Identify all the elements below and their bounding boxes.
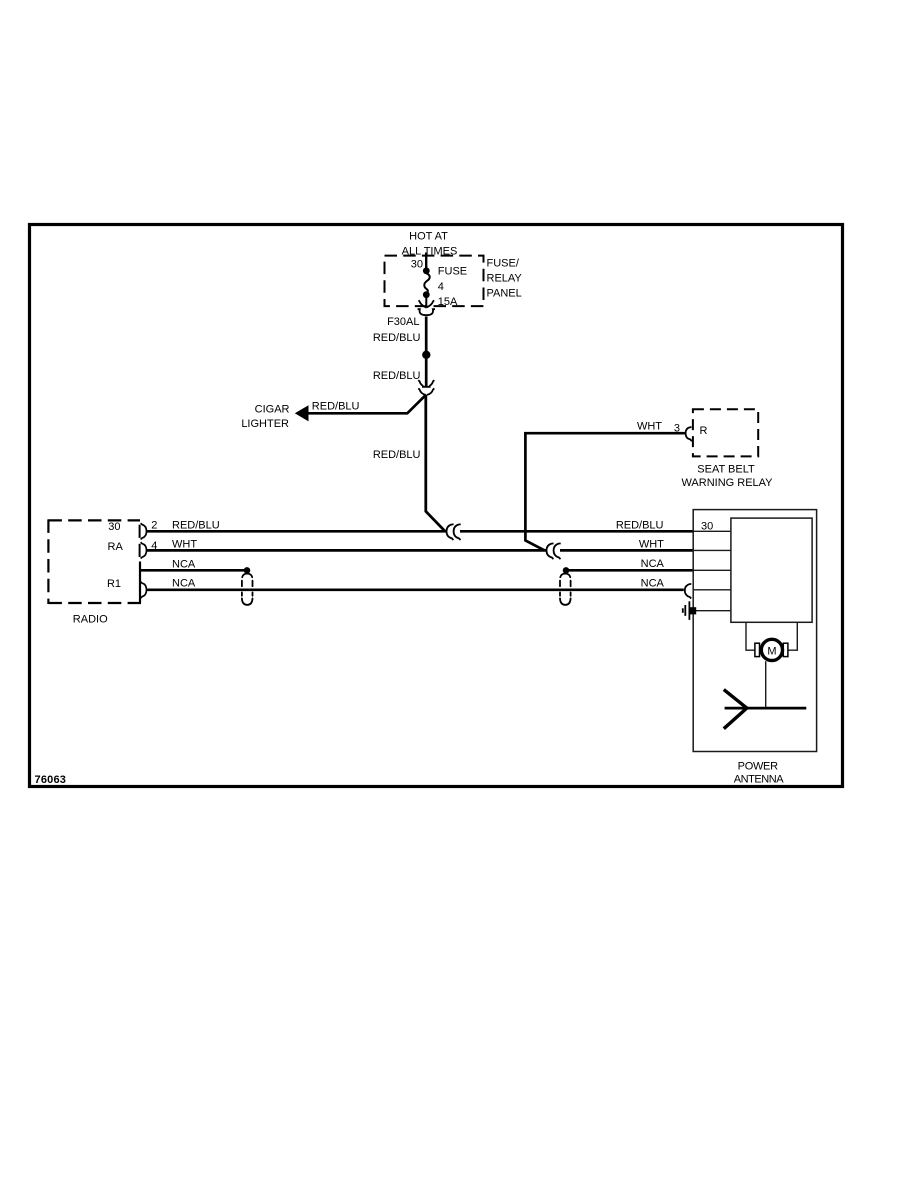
svg-text:RED/BLU: RED/BLU [172, 520, 220, 532]
inline connector on WHT [547, 544, 554, 560]
svg-text:NCA: NCA [641, 558, 665, 570]
power antenna box [693, 510, 816, 752]
svg-text:R1: R1 [107, 578, 121, 590]
svg-text:PANEL: PANEL [487, 287, 522, 299]
svg-text:30: 30 [108, 521, 120, 533]
svg-text:WHT: WHT [639, 539, 664, 551]
wire RED/BLU junction to connector [425, 357, 428, 386]
power antenna control unit box [731, 518, 812, 622]
stub wire row 1 [693, 530, 731, 532]
shield loop right [560, 574, 571, 605]
shield junction dot left [244, 567, 251, 574]
wire NCA to antenna [566, 569, 693, 572]
svg-text:FUSE/: FUSE/ [487, 258, 520, 270]
svg-text:15A: 15A [438, 296, 458, 308]
stub wire row 2 [693, 549, 731, 551]
junction node [422, 351, 430, 359]
svg-text:RA: RA [108, 541, 124, 553]
radio connector pin RA [139, 544, 141, 557]
svg-text:RED/BLU: RED/BLU [373, 370, 421, 382]
connector at antenna NCA pin [685, 584, 692, 599]
motor M wiring [746, 622, 797, 650]
antenna mast symbol [724, 690, 747, 729]
svg-text:RADIO: RADIO [73, 613, 108, 625]
svg-text:RED/BLU: RED/BLU [373, 332, 421, 344]
svg-text:POWER: POWER [738, 760, 778, 772]
wire RED/BLU fuse to junction [425, 317, 428, 353]
svg-text:3: 3 [674, 423, 680, 435]
motor brush terminals [755, 643, 760, 656]
stub wire row 3 [693, 569, 731, 571]
svg-text:ANTENNA: ANTENNA [734, 774, 785, 786]
arrow to cigar lighter [295, 405, 309, 421]
svg-text:SEAT BELT: SEAT BELT [697, 464, 755, 476]
svg-text:M: M [767, 646, 776, 658]
svg-text:NCA: NCA [172, 578, 196, 590]
ground at antenna [683, 601, 696, 620]
wire WHT from seat belt relay [525, 433, 685, 550]
radio connector pin 30 [139, 525, 141, 538]
wire RED/BLU left segment [147, 530, 447, 533]
wire branch to cigar lighter [307, 395, 426, 413]
motor M1 [761, 639, 782, 660]
svg-text:WHT: WHT [637, 420, 662, 432]
svg-text:FUSE: FUSE [438, 266, 467, 278]
svg-text:RELAY: RELAY [487, 273, 523, 285]
svg-text:RED/BLU: RED/BLU [312, 400, 360, 412]
connector socket below fuse panel [418, 309, 435, 315]
svg-text:76063: 76063 [35, 774, 67, 786]
svg-text:NCA: NCA [172, 558, 196, 570]
stub wire row 4 [693, 589, 731, 591]
svg-text:WHT: WHT [172, 538, 197, 550]
shield loop left [242, 574, 253, 605]
inline connector on RED/BLU [447, 524, 454, 540]
svg-text:RED/BLU: RED/BLU [373, 449, 421, 461]
svg-text:F30AL: F30AL [387, 316, 419, 328]
svg-text:4: 4 [438, 281, 444, 293]
svg-text:LIGHTER: LIGHTER [241, 418, 289, 430]
wire RED/BLU down to main run [426, 395, 445, 531]
wire NCA from radio [139, 569, 247, 572]
wire WHT right segment [560, 549, 693, 552]
fuse/relay panel box [385, 256, 484, 307]
wire motor to mast [765, 661, 767, 708]
wire NCA from radio R1 [147, 588, 684, 591]
seat belt warning relay box [693, 409, 758, 456]
wire feed into fuse panel [425, 253, 427, 269]
wire WHT left segment [147, 549, 547, 552]
svg-text:R: R [700, 425, 708, 437]
svg-text:30: 30 [411, 258, 423, 270]
svg-text:HOT AT: HOT AT [409, 230, 448, 242]
connector at relay pin 3 [686, 427, 692, 441]
inline connector male half [418, 380, 434, 387]
svg-text:2: 2 [151, 520, 157, 532]
fuse 4 [419, 267, 434, 307]
svg-text:CIGAR: CIGAR [255, 404, 290, 416]
wire RED/BLU right segment [460, 530, 693, 533]
svg-text:WARNING RELAY: WARNING RELAY [681, 477, 773, 489]
radio connector pin R1 [141, 582, 147, 598]
shield junction dot right [563, 567, 570, 574]
svg-text:NCA: NCA [641, 578, 665, 590]
stub wire ground row [694, 610, 731, 612]
radio box [48, 519, 141, 604]
inline connector female half [418, 388, 434, 395]
svg-text:RED/BLU: RED/BLU [616, 520, 664, 532]
